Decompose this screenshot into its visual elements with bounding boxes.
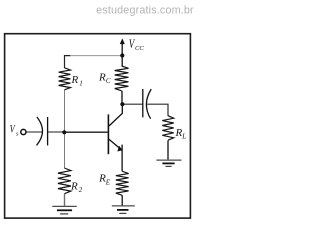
svg-text:1: 1 (79, 80, 83, 88)
svg-text:2: 2 (79, 186, 83, 194)
svg-text:E: E (105, 178, 111, 186)
svg-text:CC: CC (135, 45, 144, 52)
svg-text:R: R (98, 71, 106, 83)
svg-text:C: C (106, 77, 111, 85)
svg-text:R: R (71, 74, 79, 86)
svg-text:estudegratis.com.br: estudegratis.com.br (96, 4, 194, 16)
svg-text:R: R (70, 181, 78, 193)
svg-text:L: L (181, 132, 186, 140)
